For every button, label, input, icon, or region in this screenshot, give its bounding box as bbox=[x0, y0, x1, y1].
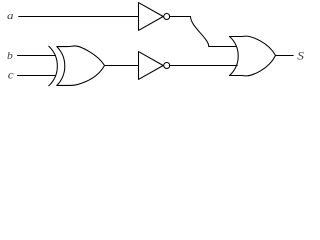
wire U1 output horizontal bbox=[170, 16, 191, 18]
inverter U1 bubble bbox=[164, 14, 170, 20]
wire b to XOR input bbox=[18, 55, 56, 57]
svg-text:c: c bbox=[8, 68, 14, 81]
node b label bbox=[7, 51, 13, 62]
inverter U3 triangle bbox=[139, 52, 164, 80]
OR gate U4 top and bottom edges bbox=[230, 36, 276, 76]
inverter U1 triangle bbox=[139, 3, 164, 31]
svg-text:b: b bbox=[7, 51, 13, 62]
wire into OR gate top input bbox=[209, 46, 236, 48]
node S label bbox=[297, 49, 304, 62]
wire a to U1 input bbox=[19, 16, 139, 18]
wire OR output to S bbox=[276, 55, 294, 57]
svg-text:a: a bbox=[7, 9, 13, 22]
XOR gate U2 body left arc bbox=[57, 47, 65, 86]
node c label bbox=[8, 68, 14, 81]
OR gate U4 concave input arc bbox=[230, 37, 239, 76]
wire U3 output to OR bottom input bbox=[170, 65, 238, 67]
svg-text:S: S bbox=[297, 49, 304, 62]
wire diagonal down to OR top input level bbox=[191, 17, 209, 47]
node a label bbox=[7, 9, 13, 22]
wire c to XOR input bbox=[18, 75, 56, 77]
wire XOR output to U3 input bbox=[105, 65, 139, 67]
XOR gate U2 body top and bottom edges bbox=[57, 46, 105, 85]
XOR gate U2 leading input arc bbox=[49, 46, 58, 86]
inverter U3 bubble bbox=[164, 63, 170, 69]
